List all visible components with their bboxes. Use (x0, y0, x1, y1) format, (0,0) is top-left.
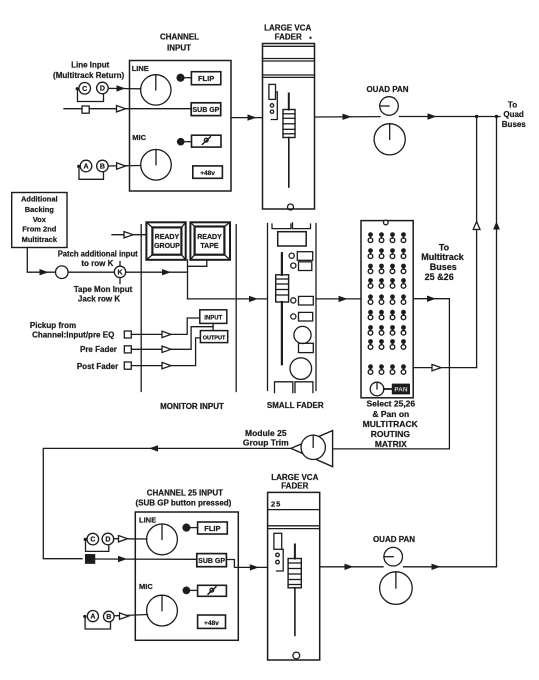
svg-text:TAPE: TAPE (200, 243, 218, 250)
large knob (290, 358, 312, 380)
wire jack K to ready bus (126, 271, 188, 273)
svg-text:Buses: Buses (502, 120, 527, 129)
patch bracket under A/B ch25 (83, 615, 86, 618)
+48v button ch25 (198, 615, 226, 628)
node junction on quad bus line (475, 115, 478, 118)
svg-text:MATRIX: MATRIX (375, 439, 407, 449)
wire small fader to matrix (316, 298, 361, 300)
patch bracket under A/B (77, 165, 80, 168)
jack B (97, 160, 109, 172)
small fader left rail (267, 224, 269, 391)
indicator dots 25 (276, 553, 280, 557)
wire A/B to MIC knob ch25 (115, 615, 148, 616)
svg-text:C: C (90, 537, 95, 544)
patch point circle (56, 266, 69, 279)
fader screw 25 (293, 652, 300, 659)
matrix switch stems (371, 237, 404, 370)
wire multitrack bus riser (476, 117, 478, 368)
svg-text:Channel:Input/pre EQ: Channel:Input/pre EQ (32, 330, 114, 339)
label CHANNEL INPUT (160, 33, 199, 53)
button LED 3 (291, 298, 296, 303)
svg-text:INPUT: INPUT (204, 316, 222, 322)
pickup jack pre EQ (124, 331, 131, 338)
svg-text:D: D (100, 86, 105, 93)
small knob (294, 326, 311, 343)
svg-text:Backing: Backing (25, 205, 55, 214)
svg-text:to row K: to row K (81, 259, 113, 268)
button LED 4 (291, 314, 296, 319)
svg-text:Quad: Quad (503, 110, 524, 119)
wire matrix out to group trim (333, 299, 450, 449)
svg-text:A: A (83, 164, 88, 171)
monitor module right rail (235, 225, 237, 392)
wire into channel 25 box (95, 558, 197, 560)
button 3 (299, 296, 314, 305)
button LED 1 (289, 253, 294, 258)
matrix pan knob (370, 382, 384, 396)
fader stem and cap 25 (294, 545, 296, 559)
svg-text:B: B (106, 614, 111, 621)
phase button ch25 (198, 585, 227, 596)
button 2 (299, 262, 312, 271)
svg-text:Vox: Vox (33, 215, 47, 224)
svg-text:OUAD PAN: OUAD PAN (366, 85, 408, 94)
wire matrix out 2 to multitrack riser (413, 367, 476, 369)
wire C/D to LINE knob ch25 (114, 538, 147, 540)
button LED 2 (291, 263, 296, 268)
svg-text:D: D (105, 537, 110, 544)
large fader body (263, 44, 315, 210)
svg-text:CHANNEL 25 INPUT: CHANNEL 25 INPUT (147, 489, 223, 498)
svg-text:PAN: PAN (394, 387, 408, 394)
channel 25 box (135, 512, 238, 640)
svg-text:Tape Mon Input: Tape Mon Input (74, 285, 133, 294)
small fader right rail (315, 224, 317, 391)
wire patch point to jack K (68, 271, 114, 273)
svg-text:(SUB GP button pressed): (SUB GP button pressed) (135, 499, 231, 508)
svg-text:MIC: MIC (132, 133, 146, 142)
svg-text:Buses: Buses (430, 262, 457, 272)
svg-text:GROUP: GROUP (154, 243, 180, 250)
label CHANNEL 25 INPUT (SUB GP button pressed) (135, 489, 231, 508)
pickup jack pre fader (124, 346, 131, 353)
LINE knob ch25 (147, 524, 178, 555)
wire SUB GP out to large fader 25 (226, 560, 267, 568)
input jack square (82, 106, 89, 113)
channel input box (130, 61, 232, 192)
phase button (192, 135, 222, 147)
quad pan knob bottom (380, 572, 413, 605)
svg-text:C: C (82, 86, 87, 93)
label To Quad Buses (502, 100, 527, 129)
fader slot plate 25 (274, 533, 282, 549)
wire quad bus riser from channel 25 (496, 117, 498, 567)
svg-text:LINE: LINE (132, 64, 149, 73)
wire channel out to large fader (231, 117, 263, 119)
monitor module left rail (140, 225, 142, 392)
group trim amp triangle (291, 431, 333, 467)
svg-text:Select 25,26: Select 25,26 (366, 398, 415, 408)
label Pickup from Channel:Input/pre EQ (30, 321, 118, 371)
svg-text:25 &26: 25 &26 (425, 272, 454, 282)
wire C/D to LINE knob (108, 87, 140, 89)
button 4 (299, 312, 313, 321)
fader screw (288, 204, 294, 210)
svg-text:SUB GP: SUB GP (198, 558, 225, 565)
svg-text:From 2nd: From 2nd (22, 225, 57, 234)
matrix switch open circles (368, 238, 406, 374)
svg-text:FADER: FADER (281, 481, 308, 490)
wire ready tape down (188, 260, 207, 267)
jack C (79, 83, 91, 95)
svg-text:& Pan on: & Pan on (372, 409, 409, 419)
jack D (97, 82, 109, 94)
quad pan pot bottom (384, 547, 403, 566)
svg-text:SUB GP: SUB GP (192, 107, 219, 114)
wire fader to quad pan (315, 116, 381, 118)
+48v button (193, 166, 223, 178)
feedback wire group trim to channel 25 sub gp (43, 448, 291, 558)
svg-text:ROUTING: ROUTING (371, 429, 411, 439)
svg-text:MULTITRACK: MULTITRACK (363, 419, 419, 429)
phase LED ch25 (183, 587, 189, 593)
jack B ch25 (104, 611, 115, 622)
label Select 25,26 & Pan on MULTITRACK ROUTING MATRIX (363, 398, 419, 449)
jack C ch25 (87, 533, 99, 545)
svg-text:Line Input: Line Input (71, 61, 110, 70)
svg-text:Post Fader: Post Fader (77, 362, 118, 371)
matrix switch dots (368, 232, 406, 369)
READY TAPE button (190, 222, 230, 259)
svg-text:Patch additional input: Patch additional input (58, 250, 138, 259)
scale plate (278, 232, 307, 246)
pickup jack post fader (124, 362, 131, 369)
fader slot plate (269, 84, 276, 99)
READY GROUP button (146, 222, 185, 259)
wire A/B to MIC knob (108, 165, 141, 168)
bottom mounting tabs (275, 382, 293, 393)
additional backing vox box (12, 193, 67, 248)
svg-text:K: K (117, 270, 122, 277)
wire fader 25 to quad pan (320, 566, 383, 568)
button 5 (299, 343, 314, 352)
svg-text:+48v: +48v (200, 170, 215, 177)
SUB GP button (191, 103, 221, 116)
label Patch additional input to row K (58, 250, 138, 269)
svg-text:Multitrack: Multitrack (22, 235, 58, 244)
svg-text:OUAD PAN: OUAD PAN (373, 535, 415, 544)
FLIP LED ch25 (183, 524, 190, 531)
SUB GP input wire (64, 108, 82, 110)
wire pan knob to PAN button (384, 388, 393, 390)
quad pan knob (374, 124, 405, 155)
patch bracket under C/D ch25 (84, 538, 87, 541)
jack A ch25 (87, 611, 98, 622)
jack A (80, 160, 92, 172)
svg-text:CHANNEL: CHANNEL (160, 33, 199, 42)
svg-text:Group Trim: Group Trim (243, 438, 289, 448)
SUB GP button ch25 (197, 554, 227, 567)
svg-text:25: 25 (271, 500, 281, 509)
svg-text:MIC: MIC (139, 582, 153, 591)
FLIP button (191, 72, 220, 85)
wire into READY GROUP (112, 234, 146, 236)
label Line Input (Multitrack Return) (53, 61, 124, 81)
phase LED (178, 139, 184, 145)
svg-text:OUTPUT: OUTPUT (203, 336, 226, 342)
jack D ch25 (102, 533, 114, 545)
svg-text:FLIP: FLIP (204, 524, 220, 533)
label LARGE VCA FADER (264, 24, 312, 42)
wire pan 25 to quad bus riser (404, 566, 497, 568)
quad pan pot (380, 97, 399, 116)
wire pre EQ to INPUT (131, 318, 200, 334)
wire monitor feed to small fader (188, 298, 268, 300)
wire INPUT to OUTPUT (212, 323, 214, 330)
wire ready group down to monitor feed (187, 260, 189, 299)
jack K (114, 266, 125, 277)
PAN button (393, 384, 410, 393)
svg-text:FADER: FADER (275, 33, 302, 42)
svg-text:Pickup from: Pickup from (30, 321, 76, 330)
svg-text:Multitrack: Multitrack (421, 252, 465, 262)
wire post fader to OUTPUT (131, 338, 200, 366)
wire pan to quad buses (400, 116, 501, 118)
sub group jack (filled square) (86, 555, 95, 564)
svg-text:+48v: +48v (204, 620, 219, 627)
label LARGE VCA FADER bottom (271, 473, 318, 490)
svg-text:Module 25: Module 25 (245, 428, 287, 438)
svg-text:B: B (100, 164, 105, 171)
svg-text:READY: READY (197, 234, 222, 241)
FLIP button ch25 (198, 522, 228, 534)
patch bracket under C/D (76, 87, 79, 90)
INPUT box (200, 310, 227, 324)
matrix top screw (384, 220, 389, 225)
top mounting tabs (272, 224, 291, 229)
svg-text:To: To (508, 100, 517, 109)
indicator dots (270, 104, 273, 107)
svg-text:FLIP: FLIP (198, 74, 214, 83)
svg-text:READY: READY (155, 234, 180, 241)
svg-text:MONITOR INPUT: MONITOR INPUT (160, 402, 224, 411)
small fader stem and cap (281, 253, 283, 275)
fader stem and cap (288, 94, 290, 110)
large fader 25 body (268, 492, 320, 660)
label Tape Mon Input Jack row K (74, 285, 133, 303)
svg-text:Pre Fader: Pre Fader (80, 345, 117, 354)
label Module 25 Group Trim (243, 428, 289, 448)
FLIP LED (177, 74, 184, 81)
MIC knob ch25 (147, 595, 178, 626)
svg-text:SMALL FADER: SMALL FADER (267, 401, 324, 410)
MIC knob (141, 150, 172, 181)
svg-text:LARGE VCA: LARGE VCA (264, 24, 311, 33)
svg-text:Jack row K: Jack row K (78, 295, 120, 304)
wire vox box to patch point (27, 248, 55, 273)
svg-text:A: A (90, 614, 95, 621)
svg-text:Additional: Additional (21, 195, 58, 204)
matrix body (361, 221, 413, 398)
svg-text:(Multitrack Return): (Multitrack Return) (53, 71, 124, 80)
svg-text:INPUT: INPUT (167, 43, 191, 52)
label To Multitrack Buses 25 &26 (421, 243, 465, 283)
group trim pot (301, 435, 325, 459)
wire to SUB GP (89, 108, 191, 110)
svg-text:To: To (439, 243, 450, 253)
svg-text:LINE: LINE (139, 516, 156, 525)
LINE knob (141, 75, 171, 105)
button 1 (297, 252, 312, 261)
wire pre fader to OUTPUT (131, 327, 213, 350)
OUTPUT box (200, 331, 227, 343)
